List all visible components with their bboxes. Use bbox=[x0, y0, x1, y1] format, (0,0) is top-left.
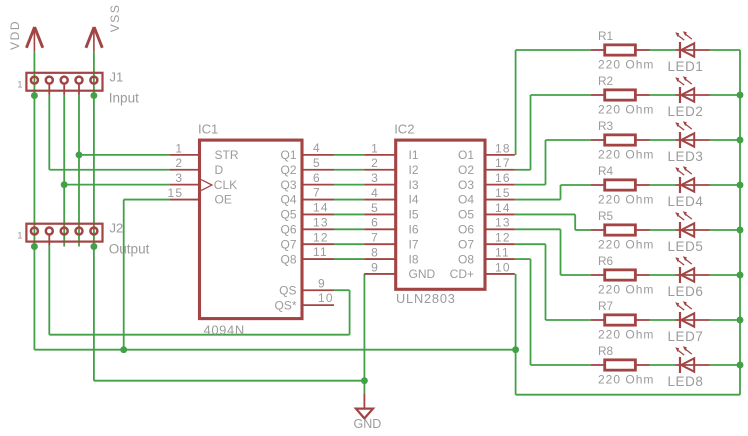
svg-text:220 Ohm: 220 Ohm bbox=[598, 283, 654, 297]
junction anode bus row 6 bbox=[737, 272, 744, 279]
svg-text:1: 1 bbox=[175, 141, 183, 155]
svg-text:LED2: LED2 bbox=[668, 104, 704, 119]
connector J1 pin 3 stub bbox=[63, 84, 65, 95]
svg-text:220 Ohm: 220 Ohm bbox=[598, 103, 654, 117]
wire R2 to LED2 bbox=[650, 94, 676, 96]
IC2 pin 13 (O6) stub bbox=[485, 228, 515, 230]
svg-text:8: 8 bbox=[371, 245, 379, 259]
op IC1 4094N shift register body bbox=[200, 140, 303, 319]
wire LED6 to anode bus bbox=[710, 274, 741, 276]
svg-text:R8: R8 bbox=[598, 344, 614, 358]
svg-text:Q6: Q6 bbox=[280, 223, 296, 237]
connector J1 pin 3 circle bbox=[61, 77, 68, 84]
svg-text:O3: O3 bbox=[458, 178, 474, 192]
wire IC2 O7 vertical to LED row 7 bbox=[545, 244, 547, 320]
wire J1 pin3 to J2 pin3 column (CLK) bbox=[63, 95, 65, 247]
IC2 pin 6 (I6) stub bbox=[364, 228, 396, 230]
wire IC1 Q2 to IC2 I2 bbox=[334, 169, 364, 171]
wire IC2 O4 horizontal from pin bbox=[515, 199, 561, 201]
IC1 pin 7 (Q4) stub bbox=[302, 199, 334, 201]
LED LED7 bbox=[675, 301, 709, 328]
wire VSS net vertical from VSS symbol through J1 pin5 and J2 pin5 bbox=[93, 52, 95, 381]
power symbol VDD bbox=[8, 20, 43, 52]
svg-text:R3: R3 bbox=[598, 119, 614, 133]
power symbol VSS bbox=[86, 3, 122, 51]
svg-text:9: 9 bbox=[318, 276, 326, 290]
svg-text:15: 15 bbox=[495, 186, 511, 200]
svg-text:14: 14 bbox=[313, 201, 329, 215]
svg-text:I1: I1 bbox=[409, 148, 419, 162]
svg-text:LED3: LED3 bbox=[668, 149, 704, 164]
svg-text:16: 16 bbox=[495, 171, 511, 185]
wire LED5 to anode bus bbox=[710, 229, 741, 231]
wire IC2 GND pin down to GND net bbox=[363, 274, 365, 381]
connector J2 pin 5 circle bbox=[90, 228, 97, 235]
IC2 pin 8 (I8) stub bbox=[364, 258, 396, 260]
svg-text:I5: I5 bbox=[409, 208, 419, 222]
IC2 pin 4 (I4) stub bbox=[364, 199, 396, 201]
svg-text:5: 5 bbox=[313, 156, 321, 170]
wire R5 to LED5 bbox=[650, 229, 676, 231]
wire IC2 O1 vertical to LED row 1 bbox=[515, 50, 517, 155]
wire IC2 O8 vertical to LED row 8 bbox=[530, 259, 532, 365]
resistor R8 bbox=[591, 360, 650, 370]
LED LED6 bbox=[675, 256, 709, 283]
IC2 pin 11 (O8) stub bbox=[485, 258, 515, 260]
wire LED row 4 horizontal to R4 bbox=[561, 184, 591, 186]
junction anode bus row 5 bbox=[737, 227, 744, 234]
wire OE horizontal from IC1 pin 15 bbox=[124, 199, 170, 201]
wire IC1 Q1 to IC2 I1 bbox=[334, 154, 364, 156]
IC2 pin 17 (O2) stub bbox=[485, 169, 515, 171]
wire R7 to LED7 bbox=[650, 319, 676, 321]
svg-text:9: 9 bbox=[371, 260, 379, 274]
svg-text:ULN2803: ULN2803 bbox=[396, 291, 456, 306]
IC1 CLK wedge bbox=[201, 180, 212, 191]
svg-text:2: 2 bbox=[371, 156, 379, 170]
svg-text:O2: O2 bbox=[458, 163, 474, 177]
svg-text:220 Ohm: 220 Ohm bbox=[598, 193, 654, 207]
svg-text:R1: R1 bbox=[598, 29, 613, 43]
wire QS net horizontal bbox=[49, 334, 349, 336]
svg-text:I6: I6 bbox=[409, 223, 419, 237]
svg-text:Q3: Q3 bbox=[280, 178, 296, 192]
wire CLK horizontal to IC1 pin 3 bbox=[64, 184, 169, 186]
wire IC2 O5 vertical to LED row 5 bbox=[574, 214, 576, 230]
resistor R3 bbox=[591, 135, 650, 145]
junction anode bus row 2 bbox=[737, 92, 744, 99]
svg-text:VSS: VSS bbox=[108, 3, 122, 32]
wire LED row 6 horizontal to R6 bbox=[561, 274, 591, 276]
svg-text:I7: I7 bbox=[409, 237, 419, 251]
svg-text:R6: R6 bbox=[598, 254, 614, 268]
svg-text:1: 1 bbox=[17, 80, 22, 91]
wire IC2 O3 vertical to LED row 3 bbox=[545, 140, 547, 185]
svg-text:CD+: CD+ bbox=[450, 267, 474, 281]
wire IC2 O2 vertical to LED row 2 bbox=[530, 95, 532, 170]
LED LED4 bbox=[675, 166, 709, 193]
IC2 pin 5 (I5) stub bbox=[364, 213, 396, 215]
svg-text:4: 4 bbox=[313, 141, 321, 155]
connector J1 pin 5 circle bbox=[90, 77, 97, 84]
svg-text:220 Ohm: 220 Ohm bbox=[598, 373, 654, 387]
junction J1 pin5 bbox=[90, 92, 97, 99]
svg-text:12: 12 bbox=[313, 230, 329, 244]
wire IC2 O6 horizontal from pin bbox=[515, 228, 561, 230]
connector J1 pin 2 circle bbox=[46, 77, 53, 84]
svg-text:1: 1 bbox=[371, 141, 379, 155]
IC1 pin 10 (QS*) stub bbox=[302, 304, 334, 306]
svg-text:CLK: CLK bbox=[214, 178, 237, 192]
junction OE to VDD rail bbox=[120, 346, 127, 353]
wire GND net horizontal bbox=[94, 380, 365, 382]
svg-text:18: 18 bbox=[495, 141, 511, 155]
wire LED8 to anode bus bbox=[710, 364, 741, 366]
wire R8 to LED8 bbox=[650, 364, 676, 366]
svg-text:3: 3 bbox=[371, 171, 379, 185]
wire R3 to LED3 bbox=[650, 139, 676, 141]
svg-text:LED6: LED6 bbox=[668, 284, 704, 299]
svg-text:I8: I8 bbox=[409, 252, 419, 266]
wire right anode bus vertical bbox=[739, 50, 741, 395]
svg-text:IC2: IC2 bbox=[394, 121, 414, 136]
svg-text:220 Ohm: 220 Ohm bbox=[598, 58, 654, 72]
connector J2 bbox=[26, 224, 102, 242]
svg-text:5: 5 bbox=[371, 201, 379, 215]
junction CLK tap bbox=[61, 181, 68, 188]
wire LED row 3 horizontal to R3 bbox=[546, 139, 591, 141]
connector J2 pin 2 stub bbox=[48, 235, 50, 245]
svg-text:QS*: QS* bbox=[274, 298, 296, 312]
IC1 pin 9 (QS) stub bbox=[302, 289, 334, 291]
svg-text:10: 10 bbox=[495, 260, 511, 274]
svg-text:6: 6 bbox=[313, 171, 321, 185]
wire VDD rail down segment to bottom bus bbox=[515, 350, 517, 395]
IC2 pin 10 (CD+) stub bbox=[485, 273, 515, 275]
svg-text:12: 12 bbox=[495, 231, 511, 245]
connector J1 bbox=[26, 73, 102, 91]
svg-text:VDD: VDD bbox=[8, 20, 22, 50]
IC2 pin 2 (I2) stub bbox=[364, 169, 396, 171]
wire J2 pin2 down (QS net) bbox=[48, 245, 50, 335]
svg-text:O5: O5 bbox=[458, 208, 474, 222]
connector J1 pin 4 circle bbox=[76, 77, 83, 84]
junction GND tap bbox=[361, 377, 368, 384]
op IC2 ULN2803 darlington array body bbox=[396, 140, 485, 289]
svg-text:14: 14 bbox=[495, 201, 511, 215]
svg-text:R7: R7 bbox=[598, 299, 613, 313]
wire IC2 O7 horizontal from pin bbox=[515, 243, 546, 245]
IC2 pin 15 (O4) stub bbox=[485, 199, 515, 201]
svg-text:11: 11 bbox=[495, 245, 510, 259]
IC1 pin 5 (Q2) stub bbox=[302, 169, 334, 171]
junction J1 pin1 bbox=[31, 92, 38, 99]
svg-text:O1: O1 bbox=[458, 148, 474, 162]
svg-text:STR: STR bbox=[215, 148, 239, 162]
wire IC2 O5 horizontal from pin bbox=[515, 213, 575, 215]
wire R1 to LED1 bbox=[650, 49, 676, 51]
svg-text:2: 2 bbox=[175, 156, 183, 170]
connector J1 pin 4 stub bbox=[78, 84, 80, 95]
connector J1 pin 2 stub bbox=[48, 84, 50, 95]
svg-text:10: 10 bbox=[318, 291, 334, 305]
svg-text:LED4: LED4 bbox=[668, 194, 704, 209]
LED LED8 bbox=[675, 346, 709, 373]
resistor R6 bbox=[591, 270, 650, 280]
wire IC1 Q8 to IC2 I8 bbox=[334, 258, 364, 260]
LED LED1 bbox=[675, 31, 709, 58]
svg-text:O8: O8 bbox=[458, 252, 474, 266]
resistor R7 bbox=[591, 315, 650, 325]
wire IC1 Q4 to IC2 I4 bbox=[334, 199, 364, 201]
IC1 pin 6 (Q3) stub bbox=[302, 184, 334, 186]
svg-text:13: 13 bbox=[313, 215, 329, 229]
connector J2 pin 2 circle bbox=[46, 228, 53, 235]
svg-text:LED1: LED1 bbox=[668, 59, 704, 74]
junction anode bus row 4 bbox=[737, 182, 744, 189]
wire D horizontal to IC1 pin 2 bbox=[49, 169, 169, 171]
svg-text:7: 7 bbox=[313, 186, 321, 200]
IC1 pin 12 (Q7) stub bbox=[302, 243, 334, 245]
svg-text:4094N: 4094N bbox=[204, 322, 245, 337]
resistor R1 bbox=[591, 45, 650, 55]
svg-text:LED8: LED8 bbox=[668, 374, 704, 389]
wire IC1 Q6 to IC2 I6 bbox=[334, 228, 364, 230]
IC1 pin 13 (Q6) stub bbox=[302, 228, 334, 230]
wire J1 pin4 to J2 pin4 column (STR) bbox=[78, 95, 80, 247]
wire VDD net vertical from VDD symbol through J1 pin1 and J2 pin1 bbox=[33, 52, 35, 350]
wire CD+ vertical from IC2 pin 10 bbox=[515, 274, 517, 350]
svg-text:Q8: Q8 bbox=[280, 252, 296, 266]
svg-text:D: D bbox=[215, 163, 224, 177]
svg-text:GND: GND bbox=[354, 417, 382, 431]
svg-text:3: 3 bbox=[175, 171, 183, 185]
junction J2 pin1 bbox=[31, 243, 38, 250]
wire LED3 to anode bus bbox=[710, 139, 741, 141]
svg-text:Input: Input bbox=[109, 91, 139, 106]
wire IC1 Q5 to IC2 I5 bbox=[334, 213, 364, 215]
svg-text:15: 15 bbox=[168, 186, 184, 200]
IC2 pin 12 (O7) stub bbox=[485, 243, 515, 245]
svg-text:220 Ohm: 220 Ohm bbox=[598, 148, 654, 162]
svg-text:R5: R5 bbox=[598, 209, 614, 223]
svg-text:O7: O7 bbox=[458, 237, 474, 251]
connector J2 pin 3 circle bbox=[61, 228, 68, 235]
IC1 pin 11 (Q8) stub bbox=[302, 258, 334, 260]
IC2 pin 3 (I3) stub bbox=[364, 184, 396, 186]
wire LED row 1 horizontal to R1 bbox=[516, 49, 591, 51]
wire LED7 to anode bus bbox=[710, 319, 741, 321]
wire R4 to LED4 bbox=[650, 184, 676, 186]
svg-text:220 Ohm: 220 Ohm bbox=[598, 238, 654, 252]
IC2 pin 1 (I1) stub bbox=[364, 154, 396, 156]
wire LED1 to anode bus bbox=[710, 49, 741, 51]
LED LED5 bbox=[675, 211, 709, 238]
IC1 pin 4 (Q1) stub bbox=[302, 154, 334, 156]
IC1 pin 3 (CLK) stub bbox=[170, 184, 200, 186]
connector J2 pin 4 circle bbox=[76, 228, 83, 235]
svg-text:J1: J1 bbox=[110, 70, 124, 85]
junction STR tap bbox=[76, 151, 83, 158]
ground symbol GND bbox=[356, 393, 373, 418]
junction J2 pin5 bbox=[90, 243, 97, 250]
IC2 pin 14 (O5) stub bbox=[485, 213, 515, 215]
wire QS net vertical up to IC1 pin 9 bbox=[349, 290, 351, 335]
wire QS from IC1 pin 9 stub bbox=[334, 289, 350, 291]
resistor R5 bbox=[591, 225, 650, 235]
wire OE vertical down to VDD rail bbox=[123, 200, 125, 350]
wire IC2 O8 horizontal from pin bbox=[515, 258, 531, 260]
svg-text:Q7: Q7 bbox=[280, 237, 296, 251]
IC1 pin 14 (Q5) stub bbox=[302, 213, 334, 215]
wire LED4 to anode bus bbox=[710, 184, 741, 186]
wire GND stub down to ground symbol bbox=[363, 381, 365, 394]
svg-text:4: 4 bbox=[371, 186, 379, 200]
wire LED2 to anode bus bbox=[710, 94, 741, 96]
svg-text:Q2: Q2 bbox=[280, 163, 296, 177]
resistor R4 bbox=[591, 180, 650, 190]
svg-text:R2: R2 bbox=[598, 74, 613, 88]
wire IC1 Q3 to IC2 I3 bbox=[334, 184, 364, 186]
wire LED row 5 horizontal to R5 bbox=[575, 229, 591, 231]
resistor R2 bbox=[591, 90, 650, 100]
wire IC2 O3 horizontal from pin bbox=[515, 184, 546, 186]
svg-text:LED7: LED7 bbox=[668, 329, 704, 344]
junction anode bus row 3 bbox=[737, 137, 744, 144]
IC1 pin 1 (STR) stub bbox=[170, 154, 200, 156]
wire bottom bus horizontal bbox=[516, 394, 740, 396]
svg-text:I4: I4 bbox=[409, 193, 419, 207]
IC2 pin 18 (O1) stub bbox=[485, 154, 515, 156]
connector J1 pin 1 circle bbox=[31, 77, 38, 84]
svg-text:LED5: LED5 bbox=[668, 239, 704, 254]
wire LED row 2 horizontal to R2 bbox=[531, 94, 591, 96]
svg-text:GND: GND bbox=[409, 267, 436, 281]
junction anode bus row 8 bbox=[737, 362, 744, 369]
wire VDD rail horizontal bottom bbox=[34, 349, 515, 351]
wire IC2 O6 vertical to LED row 6 bbox=[560, 229, 562, 275]
IC1 pin 2 (D) stub bbox=[170, 169, 200, 171]
IC1 pin 15 (OE) stub bbox=[170, 199, 200, 201]
LED LED2 bbox=[675, 76, 709, 103]
junction anode bus row 7 bbox=[737, 317, 744, 324]
svg-text:7: 7 bbox=[371, 231, 379, 245]
junction CD+ to VDD rail bbox=[512, 346, 519, 353]
svg-text:1: 1 bbox=[17, 230, 22, 241]
IC2 pin 9 (GND) stub bbox=[364, 273, 396, 275]
svg-text:Q1: Q1 bbox=[280, 148, 296, 162]
wire LED row 8 horizontal to R8 bbox=[531, 364, 591, 366]
svg-text:R4: R4 bbox=[598, 164, 614, 178]
svg-text:Q5: Q5 bbox=[280, 208, 296, 222]
svg-text:I2: I2 bbox=[409, 163, 419, 177]
svg-text:220 Ohm: 220 Ohm bbox=[598, 328, 654, 342]
LED LED3 bbox=[675, 121, 709, 148]
svg-text:17: 17 bbox=[495, 156, 511, 170]
wire IC2 O4 vertical to LED row 4 bbox=[560, 185, 562, 200]
wire J1 pin2 to D column bbox=[48, 95, 50, 170]
IC2 pin 16 (O3) stub bbox=[485, 184, 515, 186]
svg-text:O6: O6 bbox=[458, 223, 474, 237]
wire LED row 7 horizontal to R7 bbox=[546, 319, 591, 321]
svg-text:J2: J2 bbox=[110, 220, 124, 235]
wire STR horizontal to IC1 pin 1 bbox=[79, 154, 170, 156]
svg-text:11: 11 bbox=[313, 245, 328, 259]
wire IC1 Q7 to IC2 I7 bbox=[334, 243, 364, 245]
svg-text:Q4: Q4 bbox=[280, 193, 296, 207]
svg-text:I3: I3 bbox=[409, 178, 419, 192]
wire R6 to LED6 bbox=[650, 274, 676, 276]
connector J2 pin 1 circle bbox=[31, 228, 38, 235]
svg-text:O4: O4 bbox=[458, 193, 474, 207]
svg-text:IC1: IC1 bbox=[198, 121, 218, 136]
IC2 pin 7 (I7) stub bbox=[364, 243, 396, 245]
svg-text:Output: Output bbox=[109, 241, 150, 256]
svg-text:13: 13 bbox=[495, 216, 511, 230]
svg-text:OE: OE bbox=[215, 193, 232, 207]
svg-text:6: 6 bbox=[371, 216, 379, 230]
svg-text:QS: QS bbox=[279, 283, 296, 297]
wire IC2 O2 horizontal from pin bbox=[515, 169, 531, 171]
